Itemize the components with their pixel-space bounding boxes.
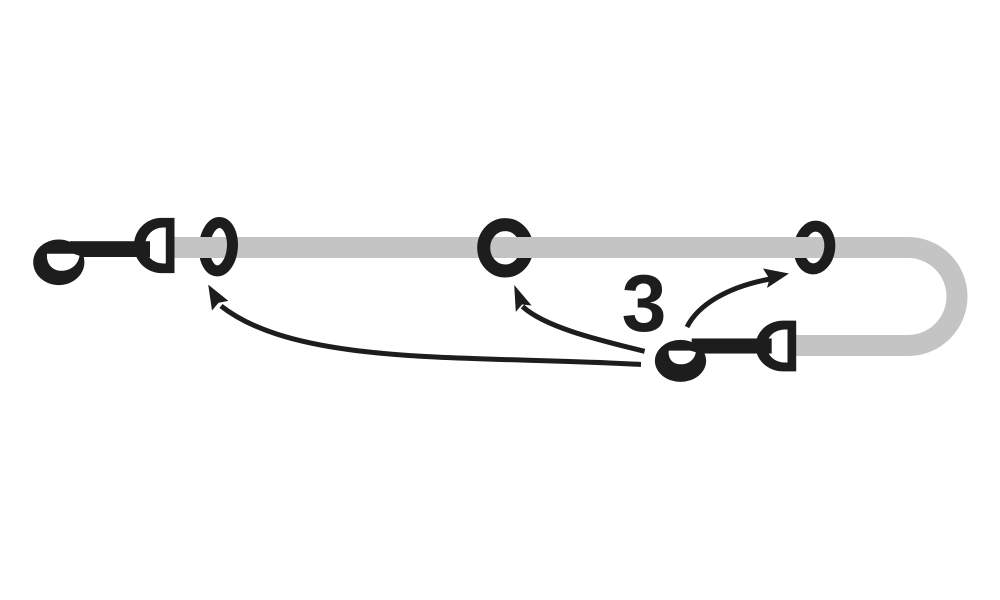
arrow A3 shaft (short, hook H2 to ring R3) bbox=[687, 279, 770, 327]
hook H2 eye hole bbox=[669, 351, 696, 365]
strap segment in front of ring R3 far side bbox=[790, 237, 815, 258]
arrow A2 head bbox=[514, 285, 531, 312]
arrow A3 head bbox=[763, 269, 789, 289]
ring R1 (left ring on strap) bbox=[203, 222, 234, 272]
svg-text:3: 3 bbox=[622, 259, 667, 349]
arrow A1 shaft (long, hook H2 to ring R1) bbox=[221, 306, 641, 365]
strap segment in front of ring R2 right side bbox=[505, 237, 538, 258]
snap hook H2 (free end of leash, bottom right) bbox=[655, 321, 796, 382]
hook H2 D-end bbox=[756, 321, 797, 372]
arrow A2 shaft (middle, hook H2 to ring R2) bbox=[523, 307, 645, 352]
snap hook H1 (left end of leash) bbox=[33, 218, 174, 285]
hook H1 eye hole bbox=[47, 254, 80, 271]
leash strap bbox=[174, 248, 957, 346]
hook H2 eye loop bbox=[655, 340, 706, 382]
hook H1 D-end bbox=[134, 218, 175, 273]
hook H2 bar bbox=[692, 338, 772, 353]
hook H1 eye loop bbox=[33, 239, 84, 285]
strap segment in front of ring R1 far side bbox=[195, 237, 218, 258]
ring R2 (middle ring, face-on) bbox=[484, 225, 527, 271]
hook H1 bar bbox=[70, 241, 150, 257]
ring R3 (right ring on strap) bbox=[797, 224, 832, 270]
arrow A1 head bbox=[208, 285, 228, 311]
